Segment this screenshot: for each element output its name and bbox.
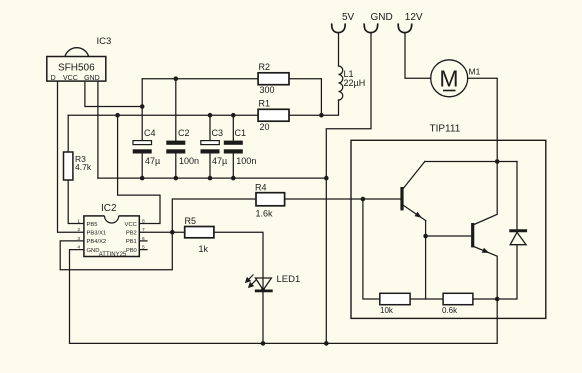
- wire 5V rail B (R1 left to R3): [68, 114, 258, 116]
- svg-text:C2: C2: [178, 128, 190, 138]
- wire GND terminal down, jog left, down to ground rail: [326, 33, 371, 344]
- svg-text:12V: 12V: [405, 12, 423, 23]
- capacitor C2: [166, 141, 185, 154]
- svg-text:1k: 1k: [199, 244, 209, 254]
- svg-text:100n: 100n: [179, 156, 199, 166]
- svg-text:TIP111: TIP111: [430, 124, 461, 135]
- wire rail A (SFH506 VCC): [85, 81, 142, 106]
- wire IC2 PB2 to R5: [139, 231, 184, 233]
- wire motor right to Q2 collector: [468, 78, 497, 224]
- svg-text:5: 5: [142, 245, 145, 251]
- pin numbers: [77, 219, 145, 251]
- wire R5 right to LED1: [214, 232, 263, 291]
- transistor Q2 emitter diagonal: [474, 247, 497, 299]
- node emitter / 0.6k / diode: [495, 297, 500, 302]
- wire C1 lower lead: [232, 154, 234, 179]
- terminal GND: [326, 24, 377, 343]
- wire 5V stem to L1: [338, 33, 340, 66]
- transistor Q2 base bar: [471, 223, 474, 247]
- svg-text:2: 2: [77, 227, 80, 233]
- svg-text:IC3: IC3: [97, 36, 112, 47]
- wire R3 bottom to IC2 PB5: [68, 180, 84, 224]
- svg-text:SFH506: SFH506: [58, 63, 95, 74]
- IC2 notch: [105, 216, 119, 223]
- node R2 line / C2: [174, 76, 179, 81]
- capacitor C4: [133, 141, 152, 154]
- svg-text:PB1: PB1: [126, 239, 137, 245]
- wire LED1 cathode to ground rail: [262, 291, 264, 344]
- svg-text:3: 3: [77, 236, 80, 242]
- wire capacitor ground rail: [98, 177, 326, 179]
- transistor Q1 base bar: [400, 187, 403, 210]
- IC2 ATTINY25 body: [84, 216, 139, 257]
- wire diode top riser: [516, 162, 518, 231]
- resistor 0.6k: [443, 293, 473, 304]
- wire R1 right: [289, 114, 321, 116]
- IC3 dome: [65, 48, 89, 57]
- wire C3 riser: [209, 115, 211, 140]
- svg-text:LED1: LED1: [277, 274, 301, 285]
- node rail B / C3: [208, 113, 213, 118]
- wire C1 riser: [232, 115, 234, 140]
- LED1 arrow 1: [246, 275, 254, 283]
- resistor R2: [258, 73, 289, 85]
- wire Q1 emitter riser: [425, 221, 427, 300]
- wire resistor rail right to diode bottom: [473, 245, 517, 299]
- node bottom rail / LED: [261, 341, 266, 346]
- svg-text:PB0: PB0: [126, 248, 137, 254]
- node LED apex: [261, 288, 265, 292]
- wire 12V to motor: [405, 33, 431, 79]
- IC3 SFH506 body: [47, 57, 106, 82]
- resistor 10k: [380, 293, 410, 304]
- resistor R4: [256, 193, 285, 206]
- capacitor C3: [201, 141, 220, 154]
- svg-text:PB4/X2: PB4/X2: [87, 239, 107, 245]
- wire C4 lower lead: [141, 154, 143, 179]
- LED1 cathode bar: [255, 289, 273, 292]
- wire L1 bottom to R1/R2 junction: [321, 100, 338, 115]
- resistor R1: [258, 109, 289, 121]
- svg-text:47µ: 47µ: [212, 156, 227, 166]
- node ground rail end / GND descent: [324, 176, 329, 181]
- node collector rail / motor: [495, 159, 500, 164]
- svg-text:1: 1: [77, 219, 80, 225]
- LED1 arrow 2: [249, 280, 257, 288]
- node ground rail / C3: [208, 176, 213, 181]
- wire R2 right drop: [320, 79, 322, 116]
- wire IC2 PB4/X2 loop to R4 node: [60, 199, 256, 270]
- svg-text:R5: R5: [185, 216, 197, 226]
- svg-text:4.7k: 4.7k: [75, 162, 92, 172]
- node base / 10k riser: [361, 197, 366, 202]
- svg-text:M1: M1: [469, 67, 481, 77]
- svg-text:100n: 100n: [236, 156, 256, 166]
- svg-text:GND: GND: [371, 12, 393, 23]
- resistor R5: [185, 227, 214, 238]
- node ground rail / C4: [140, 176, 145, 181]
- svg-text:1.6k: 1.6k: [256, 209, 274, 219]
- motor M1 circle: [431, 60, 468, 97]
- wire R3 top riser: [67, 115, 69, 152]
- wire SFH506 GND down: [97, 81, 99, 178]
- svg-text:ATTINY25: ATTINY25: [99, 252, 127, 258]
- svg-text:IC2: IC2: [101, 203, 117, 214]
- terminal 5V: [332, 24, 346, 66]
- svg-text:300: 300: [260, 85, 275, 95]
- wire Q2 base: [426, 235, 472, 237]
- TIP111 box: [351, 140, 546, 318]
- svg-text:R2: R2: [259, 62, 271, 72]
- svg-text:C3: C3: [212, 128, 224, 138]
- wire IC2 GND pin to ground rail and ground rail to emitter: [70, 250, 498, 344]
- svg-text:VCC: VCC: [63, 75, 78, 82]
- wire resistor rail between 10k and 0.6k: [410, 298, 443, 300]
- svg-text:5V: 5V: [342, 12, 355, 23]
- wire R4 right to Q1 base: [285, 198, 401, 200]
- wire C2 lower lead: [175, 154, 177, 179]
- svg-text:R4: R4: [255, 183, 267, 193]
- svg-text:20: 20: [260, 122, 270, 132]
- node ground rail / C1: [231, 176, 236, 181]
- svg-text:GND: GND: [87, 248, 100, 254]
- node bottom rail / GND descent: [324, 341, 329, 346]
- wire R2 line to C4 riser: [142, 78, 258, 80]
- terminal 12V: [398, 24, 431, 78]
- node rail B / VCC riser: [115, 113, 120, 118]
- wire base node down to 10k resistor: [363, 199, 380, 299]
- wire C4 riser: [141, 79, 143, 141]
- svg-text:PB5: PB5: [87, 222, 98, 228]
- wire C2 riser: [175, 79, 177, 141]
- motor underline: [443, 90, 456, 92]
- inductor L1: [339, 66, 343, 100]
- transistor Q1 emitter diagonal: [404, 206, 426, 221]
- svg-text:R1: R1: [259, 99, 271, 109]
- node rail A / C4: [140, 104, 145, 109]
- node Q1 emitter / Q2 base: [423, 234, 428, 239]
- diode D1 cathode bar: [509, 229, 527, 232]
- svg-text:8: 8: [142, 219, 145, 225]
- wire R2 right: [289, 78, 321, 80]
- svg-text:47µ: 47µ: [145, 156, 160, 166]
- svg-text:22µH: 22µH: [344, 78, 366, 88]
- resistor R3: [64, 152, 73, 180]
- svg-text:VCC: VCC: [125, 222, 137, 228]
- transistor Q2 emitter arrow: [482, 248, 490, 253]
- pin stub PB0: [139, 249, 147, 251]
- svg-text:0.6k: 0.6k: [442, 306, 458, 315]
- LED1 triangle: [255, 278, 271, 290]
- svg-text:7: 7: [142, 227, 145, 233]
- pin stub PB1: [139, 240, 147, 242]
- wire C3 lower lead: [209, 154, 211, 179]
- node R4/PB2/R5: [170, 230, 175, 235]
- svg-text:10k: 10k: [380, 306, 394, 315]
- capacitor C1: [224, 141, 243, 154]
- diode D1 triangle: [510, 232, 526, 244]
- svg-text:C4: C4: [144, 128, 156, 138]
- svg-text:M: M: [439, 66, 458, 92]
- wire VCC feed to IC2 pin8: [118, 115, 160, 223]
- node R1/R2/L1 junction: [319, 113, 324, 118]
- wire collector rail: [425, 161, 517, 163]
- svg-text:6: 6: [142, 236, 145, 242]
- transistor Q1 collector diagonal: [404, 162, 425, 189]
- node rail B / C1: [231, 113, 236, 118]
- svg-text:D: D: [51, 75, 56, 82]
- svg-text:4: 4: [77, 245, 80, 251]
- svg-text:GND: GND: [84, 75, 100, 82]
- node ground rail / C2: [174, 176, 179, 181]
- transistor Q1 emitter arrow: [415, 212, 422, 218]
- svg-text:PB3/X1: PB3/X1: [87, 231, 107, 237]
- svg-text:PB2: PB2: [126, 231, 137, 237]
- svg-text:C1: C1: [235, 128, 247, 138]
- wire SFH506 D to IC2 PB3/X1: [58, 81, 84, 232]
